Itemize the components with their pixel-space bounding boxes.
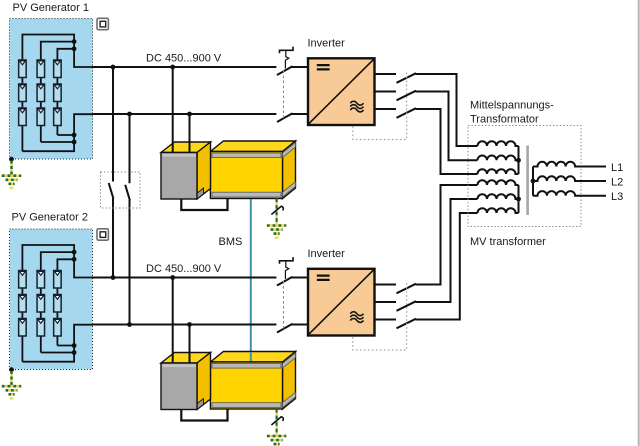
svg-text:L1: L1 <box>611 162 623 174</box>
svg-text:Transformator: Transformator <box>470 114 539 126</box>
svg-text:PV Generator 1: PV Generator 1 <box>13 2 89 14</box>
svg-text:Mittelspannungs-: Mittelspannungs- <box>470 100 554 112</box>
svg-text:L3: L3 <box>611 191 623 203</box>
svg-text:PV Generator 2: PV Generator 2 <box>12 212 88 224</box>
svg-text:L2: L2 <box>611 176 623 188</box>
svg-text:BMS: BMS <box>219 236 243 248</box>
svg-text:MV transformer: MV transformer <box>470 236 546 248</box>
